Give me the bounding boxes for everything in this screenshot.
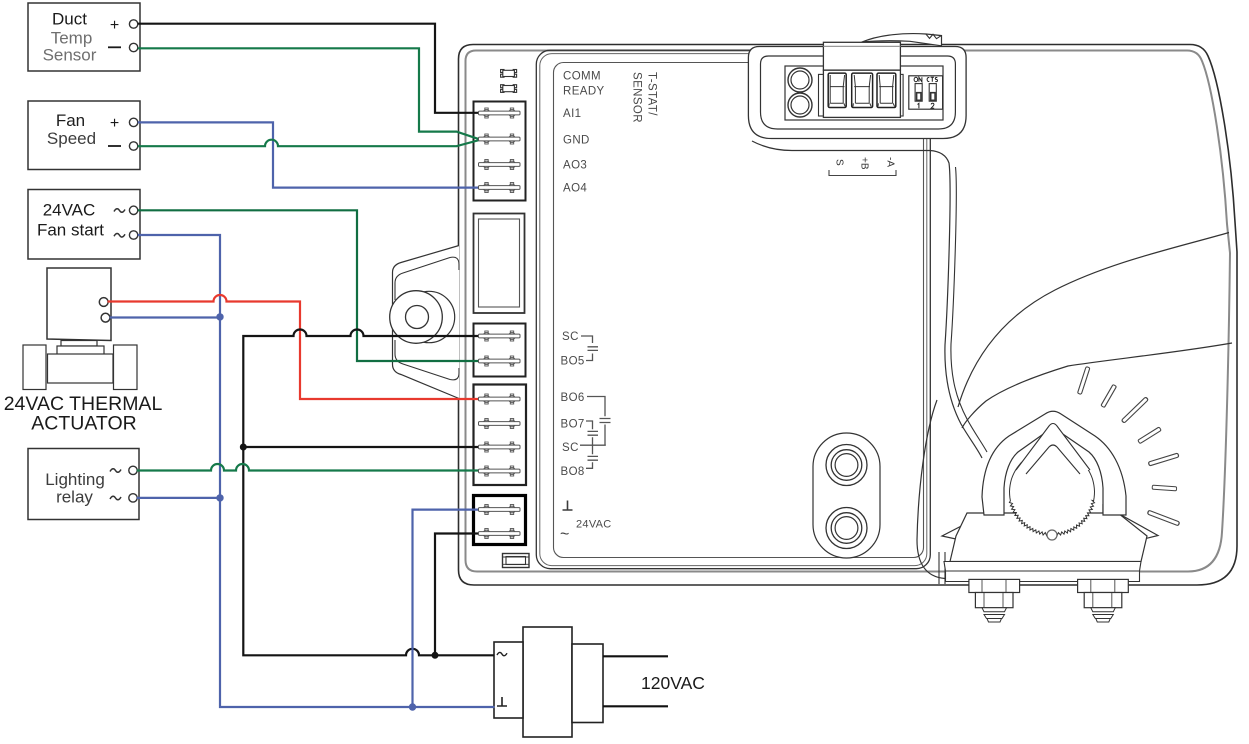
plug socket outer frame (819, 74, 904, 116)
panel symbol ground (563, 501, 573, 511)
transformer core (523, 627, 572, 737)
bracket under S +B -A (829, 170, 896, 176)
valve flange right (114, 345, 138, 390)
mounting bracket inner slant bottom (395, 340, 459, 380)
junction dot blue actuator (216, 313, 223, 320)
svg-text:AI1: AI1 (563, 108, 581, 120)
DIP switch block (909, 76, 943, 109)
label panel inner line (554, 63, 924, 558)
bolt right nut (1084, 593, 1122, 608)
clamp tent over wheel (1016, 421, 1090, 470)
plug upper block seam (823, 45, 900, 47)
svg-text:Speed: Speed (47, 129, 96, 148)
skirt lines bottom left of clamp (938, 552, 940, 584)
recess descender curve (double) (752, 141, 982, 458)
scale tick 4 (1138, 427, 1161, 444)
port circle upper (826, 445, 867, 486)
svg-text:relay: relay (56, 488, 93, 507)
wire black Duct+ to AI1 (138, 24, 479, 113)
svg-text:AO3: AO3 (563, 160, 587, 172)
terminal BO5 (479, 356, 521, 366)
svg-text:Lighting: Lighting (45, 470, 105, 489)
scale tick 3 (1121, 397, 1148, 423)
relay symbol SC-BO8 contact (586, 445, 598, 468)
wire green FanStart to BO5 (138, 210, 479, 361)
svg-text:READY: READY (563, 86, 605, 98)
terminal GND (479, 134, 521, 144)
clamp tent inner line (1026, 445, 1080, 474)
terminal block 5 24VAC bold (474, 496, 526, 545)
recess circle upper (788, 68, 812, 92)
junction dot blue transformer rail (409, 703, 416, 710)
strip connector glyph lower (501, 85, 517, 93)
mounting bracket accessory outline (393, 246, 460, 399)
terminal BO6 (479, 394, 521, 404)
svg-text:Duct: Duct (52, 10, 87, 29)
svg-text:+: + (110, 17, 119, 34)
mounting bracket shaft hole (406, 306, 429, 329)
terminal BO8 (479, 466, 521, 476)
terminal AO3 (479, 160, 521, 170)
wheel pointer tab circle (1047, 530, 1057, 540)
skirt curve around clamp left (917, 400, 945, 579)
clamp base plate (946, 571, 1140, 582)
relay symbol BO7 contact (586, 421, 598, 445)
thermal actuator terminal 2 (101, 313, 110, 322)
bolt left nut (975, 593, 1013, 608)
mounting bracket boss front circle (390, 291, 443, 344)
plug cable wedge (862, 34, 942, 46)
svg-text:BO6: BO6 (561, 392, 585, 404)
wire black 24VAC bottom to transformer (435, 534, 479, 656)
box 24VAC Fan start (28, 190, 140, 260)
scale tick 5 (1148, 453, 1179, 466)
clamp left wing (942, 505, 1002, 549)
plug window 2 (852, 73, 873, 107)
wire blue 24VAC top to transformer rail (413, 510, 480, 707)
wire blue Lighting term2 to blue rail (137, 497, 220, 499)
transformer tilde primary (497, 652, 507, 655)
svg-text:~: ~ (560, 526, 569, 543)
scale tick 7 (1147, 510, 1179, 526)
svg-text:SC: SC (562, 442, 579, 454)
svg-text:BO7: BO7 (561, 419, 585, 431)
box Lighting relay (28, 449, 139, 520)
svg-text:Fan start: Fan start (37, 221, 104, 240)
bolt left thread (982, 608, 1007, 622)
wire blue Fan+ to AO4 (138, 122, 479, 187)
transformer right winding (572, 644, 603, 723)
recess frame rectangle (785, 66, 943, 120)
junction dot black transformer (432, 652, 439, 659)
thermal actuator terminal 1 (99, 298, 108, 307)
plug terminal body (823, 70, 900, 117)
transformer secondary wire top (603, 655, 668, 657)
bolt right flange (1078, 579, 1129, 592)
transformer left winding (494, 642, 523, 718)
DIP switch 1 (915, 84, 922, 102)
terminal AO4 (479, 183, 521, 193)
relay symbol SC line (580, 444, 606, 446)
bolt right thread (1091, 608, 1116, 622)
svg-text:S: S (834, 159, 845, 166)
thermal actuator motor box (47, 268, 111, 341)
box Fan Speed (28, 101, 140, 170)
terminal block 1 AI1 GND AO3 AO4 (474, 102, 526, 201)
wire black SC to black rail with hops (243, 330, 494, 656)
wire green Fan- to GND with hop (138, 140, 480, 147)
scale tick 6 (1152, 485, 1177, 491)
clamp bracket face (950, 513, 1147, 562)
bolt left flange (969, 579, 1020, 592)
valve stem (61, 341, 97, 347)
strip connector glyph upper (501, 70, 517, 78)
relay symbol BO6 rail (587, 397, 611, 446)
terminal AI1 (479, 108, 521, 118)
svg-text:SENSOR: SENSOR (631, 72, 643, 123)
wire blue actuator term2 to blue rail (110, 316, 221, 318)
clamp bracket band (944, 562, 1141, 572)
svg-text:Sensor: Sensor (43, 46, 97, 65)
svg-text:BO5: BO5 (561, 356, 585, 368)
transformer ground primary (497, 697, 507, 706)
terminal SC2 (479, 442, 521, 452)
plug window 1 (828, 73, 846, 107)
actuator housing band lower curve (962, 343, 1232, 428)
transformer secondary wire bottom (603, 705, 668, 707)
plug upper block (823, 42, 900, 70)
svg-text:120VAC: 120VAC (641, 673, 705, 693)
actuator housing band upper curve (958, 233, 1229, 408)
contact symbol SC-BO5 (581, 336, 598, 361)
terminal SC (479, 331, 521, 341)
wire green Duct- to GND (138, 48, 480, 139)
wire blue FanStart to 24VAC rail (138, 235, 495, 707)
terminal 24VAC common (479, 529, 521, 539)
DIP switch 2 (929, 84, 936, 102)
svg-text:-A: -A (885, 157, 896, 167)
terminal 24VAC hot (479, 505, 521, 515)
svg-text:SC: SC (562, 331, 579, 343)
valve collar (57, 346, 104, 357)
svg-text:AO4: AO4 (563, 183, 587, 195)
plug window 3 (877, 73, 896, 107)
scale tick 2 (1101, 384, 1117, 407)
svg-text:ACTUATOR: ACTUATOR (31, 413, 136, 435)
box Duct Temp Sensor (28, 3, 140, 71)
wire red actuator to BO6 with hop (108, 295, 480, 399)
svg-text:T-STAT/: T-STAT/ (646, 72, 658, 116)
connector recess inner (761, 56, 956, 129)
svg-text:BO8: BO8 (561, 466, 585, 478)
svg-text:COMM: COMM (563, 71, 601, 83)
valve pipe body (48, 354, 114, 383)
DIP labels ON CTS (914, 77, 937, 82)
terminal block 2 empty (474, 214, 525, 314)
connector recess outer (748, 47, 966, 139)
port capsule (813, 433, 880, 558)
plug cable wedge zigzag (926, 34, 942, 39)
port circle lower (826, 508, 867, 549)
toothed coupler wheel (1009, 450, 1094, 536)
valve flange left (23, 345, 46, 390)
mounting bracket boss rear circle (403, 291, 454, 342)
junction dot black rail SC2 (240, 444, 247, 451)
wire green Lighting to BO8 with hops (137, 464, 479, 470)
controller body inner line (466, 51, 1231, 572)
mounting bracket inner slant top (395, 257, 459, 300)
terminal block 3 SC BO5 (474, 324, 526, 377)
small bottom connector (503, 554, 530, 568)
scale tick 1 (1077, 367, 1089, 395)
label panel second line (540, 54, 927, 566)
svg-text:24VAC: 24VAC (43, 201, 96, 220)
junction dot blue lighting (216, 494, 223, 501)
svg-text:+: + (110, 115, 119, 132)
clamp yoke band ring (982, 411, 1126, 515)
label panel outer border (536, 50, 930, 569)
clamp right wing (1103, 505, 1158, 549)
svg-text:24VAC: 24VAC (576, 519, 612, 531)
controller body outer outline (459, 45, 1238, 586)
recess circle lower (788, 93, 812, 117)
terminal BO7 (479, 419, 521, 429)
svg-text:GND: GND (563, 135, 590, 147)
svg-text:+B: +B (859, 157, 870, 170)
svg-text:Fan: Fan (56, 111, 85, 130)
terminal block 4 BO6 BO7 SC BO8 (474, 385, 527, 486)
wire black rail branch to SC2 (243, 446, 479, 448)
